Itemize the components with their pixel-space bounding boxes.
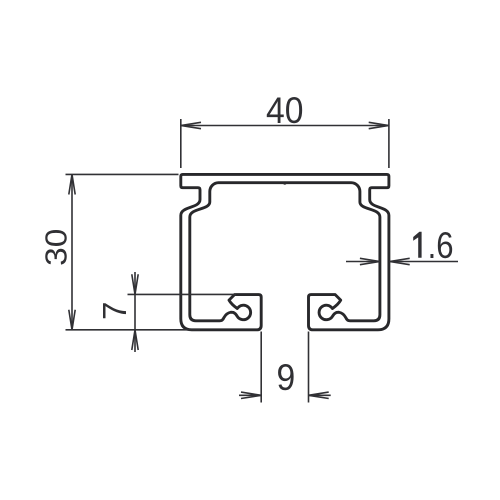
dimension linework [66, 119, 459, 403]
dim 40 arrowheads [181, 122, 201, 128]
svg-text:.6: .6 [428, 225, 454, 266]
dim 30 extension lines [66, 173, 179, 175]
dim 9 extension lines [260, 332, 262, 403]
dimension value labels [39, 90, 454, 398]
svg-text:30: 30 [39, 229, 74, 266]
svg-text:9: 9 [276, 358, 295, 399]
dim 30 arrowheads [69, 174, 75, 194]
dim 40 dimension line [181, 125, 389, 127]
svg-text:7: 7 [96, 302, 133, 320]
dim 40 extension lines [180, 119, 182, 168]
dim 30 dimension line [71, 174, 73, 329]
dim 7 dimension line and outside arrowheads [134, 272, 136, 352]
rail profile cross-section outline (40x30 C-channel with screw bosses) [181, 174, 389, 329]
centre mark tick on plate underside [283, 183, 287, 184]
dim 9 dimension lines and outside arrowheads [239, 394, 261, 396]
dim 7 extension line [128, 293, 237, 295]
svg-text:40: 40 [266, 90, 303, 131]
dim 1.6 leader lines and arrowheads at wall [346, 261, 380, 263]
